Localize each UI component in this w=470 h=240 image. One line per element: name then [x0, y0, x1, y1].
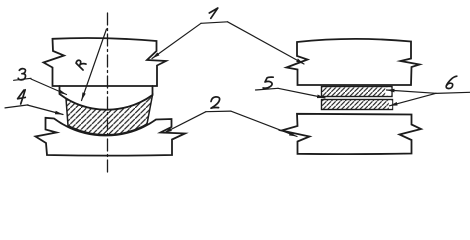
flat workpiece (upper strip, right figure): [322, 87, 393, 97]
label 3 leader line: [31, 79, 67, 95]
lower die block 2 (left figure, concave seat, break lines): [36, 118, 186, 156]
label digit 2: [211, 97, 220, 108]
lower block 2 (right figure, with break lines): [282, 114, 422, 154]
radius line R with arrow: [82, 29, 107, 101]
label digit 3: [18, 69, 25, 80]
underline of label 1: [201, 22, 228, 24]
label 5 leader line: [278, 88, 325, 98]
unhatched right tab of upper strip: [385, 87, 391, 95]
label digit 4: [18, 90, 26, 104]
label digit 5: [263, 77, 273, 88]
curved workpiece 4 (hatched strip): [66, 95, 153, 135]
unhatched right tab of lower strip: [389, 100, 392, 108]
label 6 leader lines: [387, 90, 437, 93]
label digit 6: [446, 76, 457, 88]
underline of label 2: [206, 110, 231, 113]
punch 3 (spherical working surface): [60, 86, 153, 110]
flat workpiece (lower strip, right figure): [322, 100, 393, 110]
label 1 leader lines: [152, 23, 201, 58]
underline of label 6 (extends to right edge): [436, 92, 470, 93]
label 2 leader lines: [164, 112, 206, 133]
label digit 1: [209, 8, 218, 18]
underline of label 3: [14, 78, 31, 80]
upper block 1 (left figure, with break lines): [44, 38, 167, 86]
upper block 1 (right figure, with break lines): [287, 39, 420, 85]
label R (rotated, near radius line): [75, 59, 87, 70]
centerline (dash-dot axis, left figure): [107, 13, 109, 173]
label 4 leader line: [27, 105, 63, 115]
underline of label 4: [5, 105, 28, 108]
underline of label 5: [256, 88, 279, 90]
